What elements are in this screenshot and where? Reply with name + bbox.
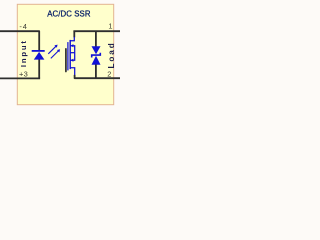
LED D1 cathode bar: [32, 50, 45, 52]
svg-text:AC/DC SSR: AC/DC SSR: [47, 9, 91, 18]
wire input bottom pin 3: [0, 77, 40, 79]
wire drain lead down: [73, 31, 75, 37]
body tap upper with loop: [70, 46, 75, 61]
wire TVS branch bottom: [95, 65, 97, 79]
svg-text:+3: +3: [19, 69, 28, 78]
svg-text:-4: -4: [19, 22, 27, 31]
svg-text:Input: Input: [19, 39, 28, 67]
MOSFET Q1/Q2 photomos output: [68, 37, 75, 76]
source tap middle: [70, 52, 75, 54]
wire TVS branch top: [95, 31, 97, 47]
gate bar: [67, 42, 69, 70]
component body box: [17, 4, 113, 104]
svg-text:1: 1: [108, 22, 112, 31]
LED emission arrow 2: [51, 49, 60, 58]
MOSFET body arrow lower: [70, 59, 73, 62]
TVS D2 lower triangle: [92, 56, 101, 65]
wire input top pin 4: [0, 31, 39, 50]
LED emission arrow 1: [48, 45, 57, 54]
svg-text:Load: Load: [107, 41, 116, 68]
wire LED anode to bottom: [38, 59, 40, 78]
MOSFET body arrow upper: [70, 44, 73, 47]
LED D1 triangle: [34, 52, 45, 60]
drain lead blue: [70, 37, 74, 41]
channel bar: [69, 40, 71, 69]
TVS D2 zener bar: [92, 53, 101, 58]
TVS D2 upper triangle: [92, 46, 101, 54]
drain tap lower + source lead down: [70, 68, 75, 76]
wire output bottom rail pin 2: [75, 75, 120, 78]
svg-text:2: 2: [107, 69, 111, 78]
wire gate line: [65, 49, 67, 72]
wire output top rail pin 1: [73, 30, 120, 32]
